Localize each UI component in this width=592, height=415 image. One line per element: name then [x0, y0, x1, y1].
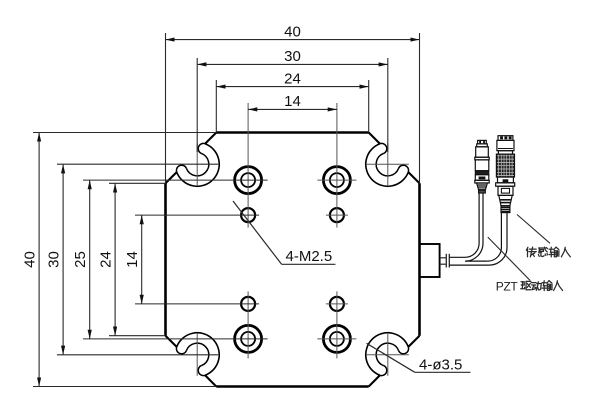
corner notch bottom-left (4-dia3.5 hole) [166, 336, 177, 347]
counterbore hole (left bottom) [235, 325, 262, 352]
leader (PZT input) [488, 237, 530, 280]
corner centreline top-right [367, 163, 409, 165]
svg-text:40: 40 [22, 251, 39, 268]
tapped hole M2.5 (right bottom) [330, 297, 344, 311]
dimension 30 (top) [197, 63, 388, 65]
leader (sensor input) [517, 215, 550, 244]
leader 4-M2.5 [233, 201, 282, 264]
plate bottom edge [216, 385, 368, 388]
svg-text:24: 24 [284, 70, 301, 87]
gland flange ticks [445, 254, 447, 268]
svg-text:4-ø3.5: 4-ø3.5 [419, 357, 462, 374]
corner centreline bottom-left [196, 334, 198, 376]
corner notch top-right (4-dia3.5 hole) [408, 172, 419, 183]
plate right edge [418, 183, 421, 335]
cable (sensor) left line [449, 193, 479, 257]
svg-text:30: 30 [46, 251, 63, 268]
hole crosshair [326, 214, 348, 216]
dimension 40 (left) [38, 133, 40, 387]
tapped hole M2.5 (left top) [241, 208, 255, 222]
svg-text:PZT: PZT [496, 279, 519, 293]
cable gland block [420, 244, 440, 277]
witness/centreline [83, 179, 268, 181]
cable (sensor) right line [465, 193, 483, 261]
dimension 24 (top) [216, 86, 368, 88]
gland stem [440, 257, 447, 259]
dimension 14 (left) [141, 215, 143, 304]
svg-text:25: 25 [72, 251, 89, 268]
hole centreline vertical bottom [336, 291, 338, 358]
dimension 25 (left) [89, 180, 91, 339]
plate top edge [216, 131, 368, 134]
witness line [33, 132, 216, 134]
dimension 40 (top) [166, 39, 420, 41]
dimension 14 (top) [248, 108, 337, 110]
counterbore hole (left top) [235, 167, 262, 194]
label sensor-input (CJK) [526, 247, 536, 257]
counterbore hole (right top) [323, 167, 350, 194]
svg-text:4-M2.5: 4-M2.5 [286, 248, 333, 265]
cable bundle mid line [465, 260, 488, 262]
witness/centreline [57, 163, 218, 165]
corner centreline top-left [196, 143, 198, 185]
label PZT-drive-input (CJK) [521, 281, 531, 289]
tapped hole M2.5 (left bottom) [241, 297, 255, 311]
hole crosshair [326, 303, 348, 305]
svg-text:30: 30 [284, 48, 301, 65]
connector plug (sensor, small) [478, 140, 487, 144]
hole centreline vertical top [336, 103, 338, 228]
dimension 30 (left) [62, 164, 64, 355]
corner centreline bottom-right [367, 354, 409, 356]
svg-text:24: 24 [98, 251, 115, 268]
counterbore hole (right bottom) [323, 325, 350, 352]
leader 4-dia3.5 [367, 343, 415, 372]
svg-text:14: 14 [284, 93, 301, 110]
witness/centreline [135, 214, 259, 216]
corner notch top-left (4-dia3.5 hole) [166, 172, 177, 183]
hole centreline vertical top [247, 103, 249, 228]
svg-text:40: 40 [284, 23, 301, 40]
corner notch bottom-right (4-dia3.5 hole) [408, 336, 419, 347]
witness line [215, 80, 217, 133]
plate left edge [164, 183, 167, 335]
tapped hole M2.5 (right top) [330, 208, 344, 222]
dimension 24 (left) [114, 183, 116, 335]
connector plug (PZT, large) [498, 136, 513, 141]
hole crosshair [317, 338, 356, 340]
witness line [196, 58, 198, 152]
cable bundle bottom line [449, 264, 489, 266]
witness line [109, 182, 166, 184]
cable (PZT) left line [488, 213, 502, 262]
witness line [165, 33, 167, 183]
hole crosshair [317, 179, 356, 181]
svg-text:14: 14 [124, 251, 141, 268]
cable (PZT) right line [489, 213, 507, 266]
hole centreline vertical bottom [247, 291, 249, 358]
